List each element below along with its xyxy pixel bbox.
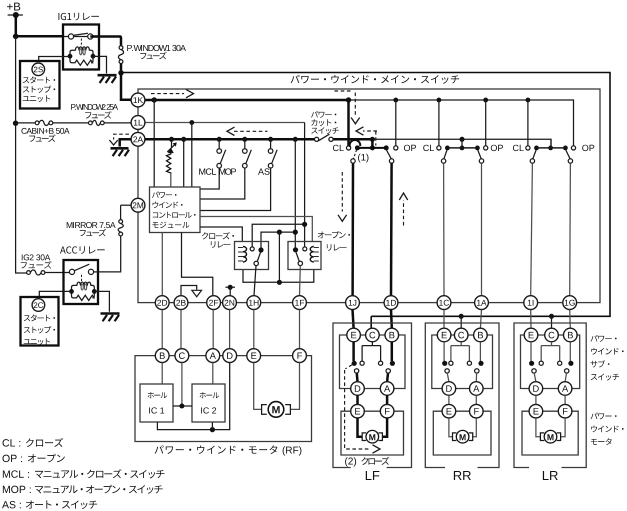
label power window control module xyxy=(152,191,159,197)
wire close relay to 1H xyxy=(254,266,256,296)
legend OP open xyxy=(2,455,9,462)
switch RR rocker xyxy=(437,146,441,150)
motor LF xyxy=(362,433,382,441)
legend CL close xyxy=(3,439,10,446)
node cross junction x295 xyxy=(293,230,298,235)
node 1L junction to module xyxy=(189,120,194,125)
node P.WINDOW1 junction xyxy=(118,70,123,75)
wire IC1-IC2 link xyxy=(173,405,192,407)
wire C contact split LF xyxy=(362,342,381,361)
connector B RR xyxy=(474,328,488,342)
switch box LR xyxy=(521,335,580,389)
switch LF rocker: OP contact xyxy=(394,146,398,150)
label power window sub switch xyxy=(591,335,598,342)
label start-stop unit 2C xyxy=(24,315,30,321)
connector D LF xyxy=(351,382,365,396)
wire B to hall IC1 xyxy=(161,363,163,385)
wire 2A to module x183 xyxy=(183,139,185,187)
connector B LF xyxy=(385,328,399,342)
motor box RR xyxy=(433,411,491,455)
arrow close flow (2) xyxy=(345,365,371,449)
node bus junction x154 xyxy=(152,97,157,102)
connector 1A xyxy=(475,296,489,310)
label (1) operation xyxy=(358,154,361,163)
wire E to motor LR xyxy=(536,418,541,437)
wire bus to LR CL contact xyxy=(527,100,529,146)
wire C contact split LR xyxy=(541,342,560,361)
label CL RR xyxy=(423,145,429,151)
fuse CABIN+B 50A xyxy=(16,122,36,124)
motor box LR xyxy=(522,411,578,455)
motor RR xyxy=(453,433,473,441)
node bus junction RR OP xyxy=(483,98,488,103)
wire module to open relay coil xyxy=(200,217,312,242)
wire start-stop unit 2S to IG1 coil xyxy=(39,57,70,62)
wire bus to RR CL contact xyxy=(438,100,440,146)
label MOP xyxy=(219,169,225,175)
connector 1D xyxy=(384,296,398,310)
relay open coil xyxy=(310,247,314,263)
wire C to IC link xyxy=(181,363,183,407)
wire 1K bus (bold) xyxy=(145,99,349,102)
wire top rail to LF C xyxy=(370,316,372,328)
motor LR xyxy=(540,433,560,441)
switch blade left LR xyxy=(532,369,536,373)
wire module to close relay coil xyxy=(200,227,242,242)
sub-switch unit LR box xyxy=(514,323,586,468)
label MIRROR fuse xyxy=(67,222,73,228)
switch LF rocker: CL contact xyxy=(347,146,351,150)
fuse P.WINDOW2 25A xyxy=(89,121,93,125)
wire relay NO contacts cross xyxy=(261,232,295,248)
arrow current flow toward 2A xyxy=(234,130,268,132)
wire A to F LR xyxy=(564,395,566,404)
wire A to F RR xyxy=(475,395,477,404)
legend MOP xyxy=(3,486,10,493)
connector E LR xyxy=(524,328,538,342)
wire B contact column RR xyxy=(479,342,481,361)
relay close contacts xyxy=(250,247,254,251)
switch blade right LR xyxy=(565,369,569,373)
motor RF xyxy=(262,405,291,415)
power window main switch box xyxy=(138,89,600,303)
switch box RR xyxy=(432,335,493,389)
connector 2D xyxy=(155,296,169,310)
sub-switch unit LF box xyxy=(333,323,412,468)
connector 2A xyxy=(131,132,145,146)
wire RR OP column to 1A xyxy=(481,163,483,295)
arrow flow up 1D column xyxy=(403,200,405,225)
connector 2N xyxy=(223,296,237,310)
label power window main switch xyxy=(291,75,300,83)
node 1L cross junction xyxy=(302,222,307,227)
wire 1D to LF B (bold) xyxy=(390,310,393,329)
wire +B to IG1 relay xyxy=(16,35,64,38)
wire AS to module xyxy=(200,168,271,211)
wire top rail to RR C xyxy=(460,316,462,328)
connector 2C xyxy=(32,299,45,312)
switch LF rocker: pivot and blade dots xyxy=(355,145,360,150)
wire IC2 to common xyxy=(211,422,213,430)
wire A to hall IC2 xyxy=(212,363,214,385)
connector F motor LR xyxy=(558,404,572,418)
wire ACC coil to ground xyxy=(94,291,109,311)
wire top rail to LR C xyxy=(551,316,553,328)
label open relay xyxy=(318,232,325,239)
node +B battery terminal xyxy=(7,4,13,10)
connector F motor RR xyxy=(470,404,484,418)
wire bus to LF OP contact xyxy=(395,100,397,146)
label CL LR xyxy=(513,145,519,151)
connector A LR xyxy=(558,382,572,396)
connector E motor LF xyxy=(351,404,365,418)
wire 1J to LF E (bold) xyxy=(353,310,354,329)
wire bus to RR OP contact xyxy=(485,100,487,146)
wire 1L to module xyxy=(191,123,193,188)
switch blade left RR xyxy=(445,369,449,373)
connector 1G xyxy=(563,296,577,310)
label IG2 30A fuse xyxy=(21,255,24,261)
connector B xyxy=(155,349,169,363)
wire 2N to D xyxy=(229,310,231,349)
wire LF OP column to 1D (bold) xyxy=(390,163,393,295)
wire x279 down to coil common xyxy=(278,232,280,282)
wire module to 2D xyxy=(161,233,163,296)
arrow flow left at pivot xyxy=(363,130,377,132)
arrow 2A to ground xyxy=(114,134,129,139)
wire E contact column LR xyxy=(530,342,532,361)
wire IG1 coil to ground xyxy=(93,56,107,73)
connector 1J xyxy=(346,296,360,310)
wire F to motor LF xyxy=(382,418,387,437)
thermistor circuit breaker xyxy=(169,137,174,142)
label (2) close xyxy=(345,457,348,466)
switch LF rocker: CL blade actuated (dashed) xyxy=(353,150,356,159)
relay open box xyxy=(288,242,321,270)
wire open relay to 1F xyxy=(299,266,302,296)
power window motor RF box xyxy=(135,356,312,442)
wire 1A to RR B xyxy=(480,310,481,329)
wire LF CL column to 1J (bold) xyxy=(351,163,354,295)
label start-stop unit xyxy=(23,77,29,83)
unit 2C start-stop box xyxy=(21,297,59,346)
switch MOP manual open xyxy=(242,137,247,142)
connector C LR xyxy=(545,328,559,342)
wire C contact split RR xyxy=(451,342,470,361)
node C link junction xyxy=(179,404,184,409)
legend AS xyxy=(2,501,9,508)
wire 1K bus thin to OP contacts xyxy=(349,100,574,146)
wire F to motor xyxy=(291,363,300,410)
wire E to motor xyxy=(254,363,262,410)
label power cut switch xyxy=(311,111,318,118)
connector 1K xyxy=(131,93,145,107)
wire E to motor RR xyxy=(449,418,453,437)
connector 1H xyxy=(247,296,261,310)
label power window motor (rear) xyxy=(591,413,598,420)
wire 1L cross to close relay NC xyxy=(252,224,304,247)
connector 1I xyxy=(524,296,538,310)
relay open contacts xyxy=(293,247,298,252)
wire D to E RR xyxy=(448,395,450,404)
hall IC1 box xyxy=(140,384,173,422)
wire E contact column LF xyxy=(352,342,355,361)
ground 2A xyxy=(111,147,129,150)
label LR xyxy=(543,471,549,480)
wire B contact column LR xyxy=(569,342,571,361)
node bus junction RR CL xyxy=(437,98,442,103)
node CABIN+B junction on +B trunk xyxy=(13,121,18,126)
arrow current flow from 1K xyxy=(151,93,184,95)
switch blade left LF xyxy=(354,369,358,373)
wire F to motor LR xyxy=(560,418,565,437)
relay IG1 box xyxy=(63,25,99,70)
wire 2A row (bold) xyxy=(145,138,315,141)
connector E LF xyxy=(347,328,361,342)
wire bus to module xyxy=(153,100,155,187)
wire LR OP column to 1G xyxy=(569,163,572,295)
wire MCL to module xyxy=(200,168,219,189)
connector E motor LR xyxy=(529,404,543,418)
connector C LF xyxy=(366,328,380,342)
wire module to 2F xyxy=(182,233,213,296)
switch blade right RR xyxy=(475,369,479,373)
relay ACC coil and resistor xyxy=(72,285,78,291)
wire 2M to mirror fuse xyxy=(121,204,132,206)
wire D to E LR xyxy=(535,395,537,404)
legend MCL xyxy=(3,470,10,477)
motor box LF xyxy=(341,411,404,455)
connector F xyxy=(293,349,307,363)
wire A to F LF xyxy=(386,395,389,404)
node top rail RR C junction xyxy=(459,314,464,319)
wire 2D to B xyxy=(161,310,163,349)
label close relay xyxy=(202,232,208,239)
connector D LR xyxy=(529,382,543,396)
relay IG1 label xyxy=(57,13,60,20)
wire 2A row thin to RR/LR pivots xyxy=(372,139,551,146)
connector 2F xyxy=(207,296,221,310)
wire LF pivot cross (bold) xyxy=(357,147,386,149)
wire D to E LF xyxy=(356,395,359,404)
switch AS auto xyxy=(268,137,273,142)
relay IG1 switch xyxy=(64,36,99,38)
connector A LF xyxy=(380,382,394,396)
wire RR CL column to 1C xyxy=(443,163,445,295)
wire 1G to LR B xyxy=(569,310,572,329)
terminal above 2N xyxy=(225,286,235,288)
wire thermistor to module xyxy=(170,172,172,187)
wire 1F to F xyxy=(299,310,301,349)
fuse MIRROR 7.5A xyxy=(120,205,122,219)
label OP RR xyxy=(491,145,497,151)
wire F to motor RR xyxy=(472,418,476,437)
connector 2M xyxy=(131,198,145,212)
wire D to IC commons xyxy=(157,363,229,430)
relay IG1 coil and resistor xyxy=(70,50,76,56)
label OP LR xyxy=(582,145,588,151)
connector D RR xyxy=(442,382,456,396)
wire 2A down to open relay NO contact xyxy=(294,139,296,248)
connector A xyxy=(206,349,220,363)
node bus junction LR CL xyxy=(526,98,531,103)
wire B contact column LF xyxy=(391,342,394,361)
node 2A junction x183 xyxy=(181,137,186,142)
node bus junction LF CL xyxy=(346,97,351,102)
connector C RR xyxy=(454,328,468,342)
label CABIN+B fuse xyxy=(21,128,26,134)
wire E to motor LF xyxy=(358,418,363,437)
connector 2S xyxy=(32,63,45,76)
relay close coil xyxy=(243,247,247,263)
arrow triangle above bottom edge xyxy=(192,290,202,296)
label P.WINDOW1 fuse xyxy=(127,45,132,51)
connector D xyxy=(223,349,237,363)
switch box LF xyxy=(340,335,406,389)
ground IG1 relay xyxy=(98,74,117,77)
wire 2B to output arrow xyxy=(181,286,197,296)
label MCL xyxy=(199,169,205,175)
node bus junction LF OP xyxy=(393,98,398,103)
node top rail LR C junction xyxy=(549,314,554,319)
switch LF rocker: OP blade xyxy=(387,150,392,159)
connector F motor LF xyxy=(380,404,394,418)
relay ACC switch xyxy=(69,269,74,274)
label OP LF xyxy=(404,145,410,151)
connector 2B xyxy=(174,296,188,310)
hall IC2 box xyxy=(192,384,225,422)
wire +B vertical trunk xyxy=(15,15,18,36)
module control box xyxy=(150,187,201,233)
wire E contact column RR xyxy=(443,342,445,361)
wire 2A stub to LF pivot (bold) xyxy=(370,137,375,142)
wire 1C to RR E xyxy=(443,310,445,329)
switch blade right LF xyxy=(386,369,390,373)
connector 1C xyxy=(437,296,451,310)
connector E motor RR xyxy=(442,404,456,418)
wire MOP to module xyxy=(200,168,245,199)
node coil common junction xyxy=(277,280,282,285)
unit 2S start-stop box xyxy=(20,61,60,109)
label CL LF xyxy=(333,145,339,151)
node cross junction x279 xyxy=(277,230,282,235)
node 2A junction to open relay NO xyxy=(293,137,298,142)
connector 1F xyxy=(293,296,307,310)
switch LF rocker: CL blade circle xyxy=(351,159,355,163)
label RR xyxy=(454,471,462,480)
wire 2A to ground xyxy=(120,139,132,146)
connector B LR xyxy=(564,328,578,342)
connector C xyxy=(175,349,189,363)
arrow flow down near 1J column xyxy=(341,172,343,212)
wire 2B to C xyxy=(180,310,182,349)
label power window motor RF xyxy=(155,445,164,453)
wire LR CL column to 1I xyxy=(531,163,533,295)
relay close box xyxy=(235,242,269,270)
connector E xyxy=(247,349,261,363)
label ACC relay xyxy=(60,247,66,254)
wire bus to LF CL contact (bold) xyxy=(347,100,350,146)
wire fuse junction down to 1K xyxy=(121,73,131,100)
label P.WINDOW2 fuse xyxy=(71,104,75,110)
wire ACC coil to 2C unit xyxy=(39,291,72,297)
connector 1L xyxy=(131,116,145,130)
wire 1L down to open relay NC contact xyxy=(304,123,306,247)
wire 1H to E xyxy=(253,310,255,349)
switch power cut xyxy=(315,137,319,141)
sub-switch unit RR box xyxy=(425,323,499,468)
ground ACC relay xyxy=(101,312,120,315)
node IC2 common junction xyxy=(210,427,215,432)
label LF xyxy=(366,471,372,480)
wire 2F to A xyxy=(212,310,214,349)
wire +B feed top rail to sub-switches xyxy=(121,73,610,317)
switch MCL manual close xyxy=(217,137,222,142)
fuse IG2 30A xyxy=(27,271,31,275)
arrow flow bend into power cut area xyxy=(335,90,353,92)
label AS xyxy=(258,169,264,175)
wire 1L row xyxy=(145,122,305,124)
fuse P.WINDOW1 30A xyxy=(90,37,121,46)
wire 1I to LR E xyxy=(530,310,532,329)
relay ACC box xyxy=(64,260,99,304)
switch LR rocker xyxy=(526,146,530,150)
wire close coil to common xyxy=(243,270,314,283)
switch LF rocker: rotation arc xyxy=(350,140,361,147)
connector A RR xyxy=(470,382,484,396)
connector E RR xyxy=(437,328,451,342)
